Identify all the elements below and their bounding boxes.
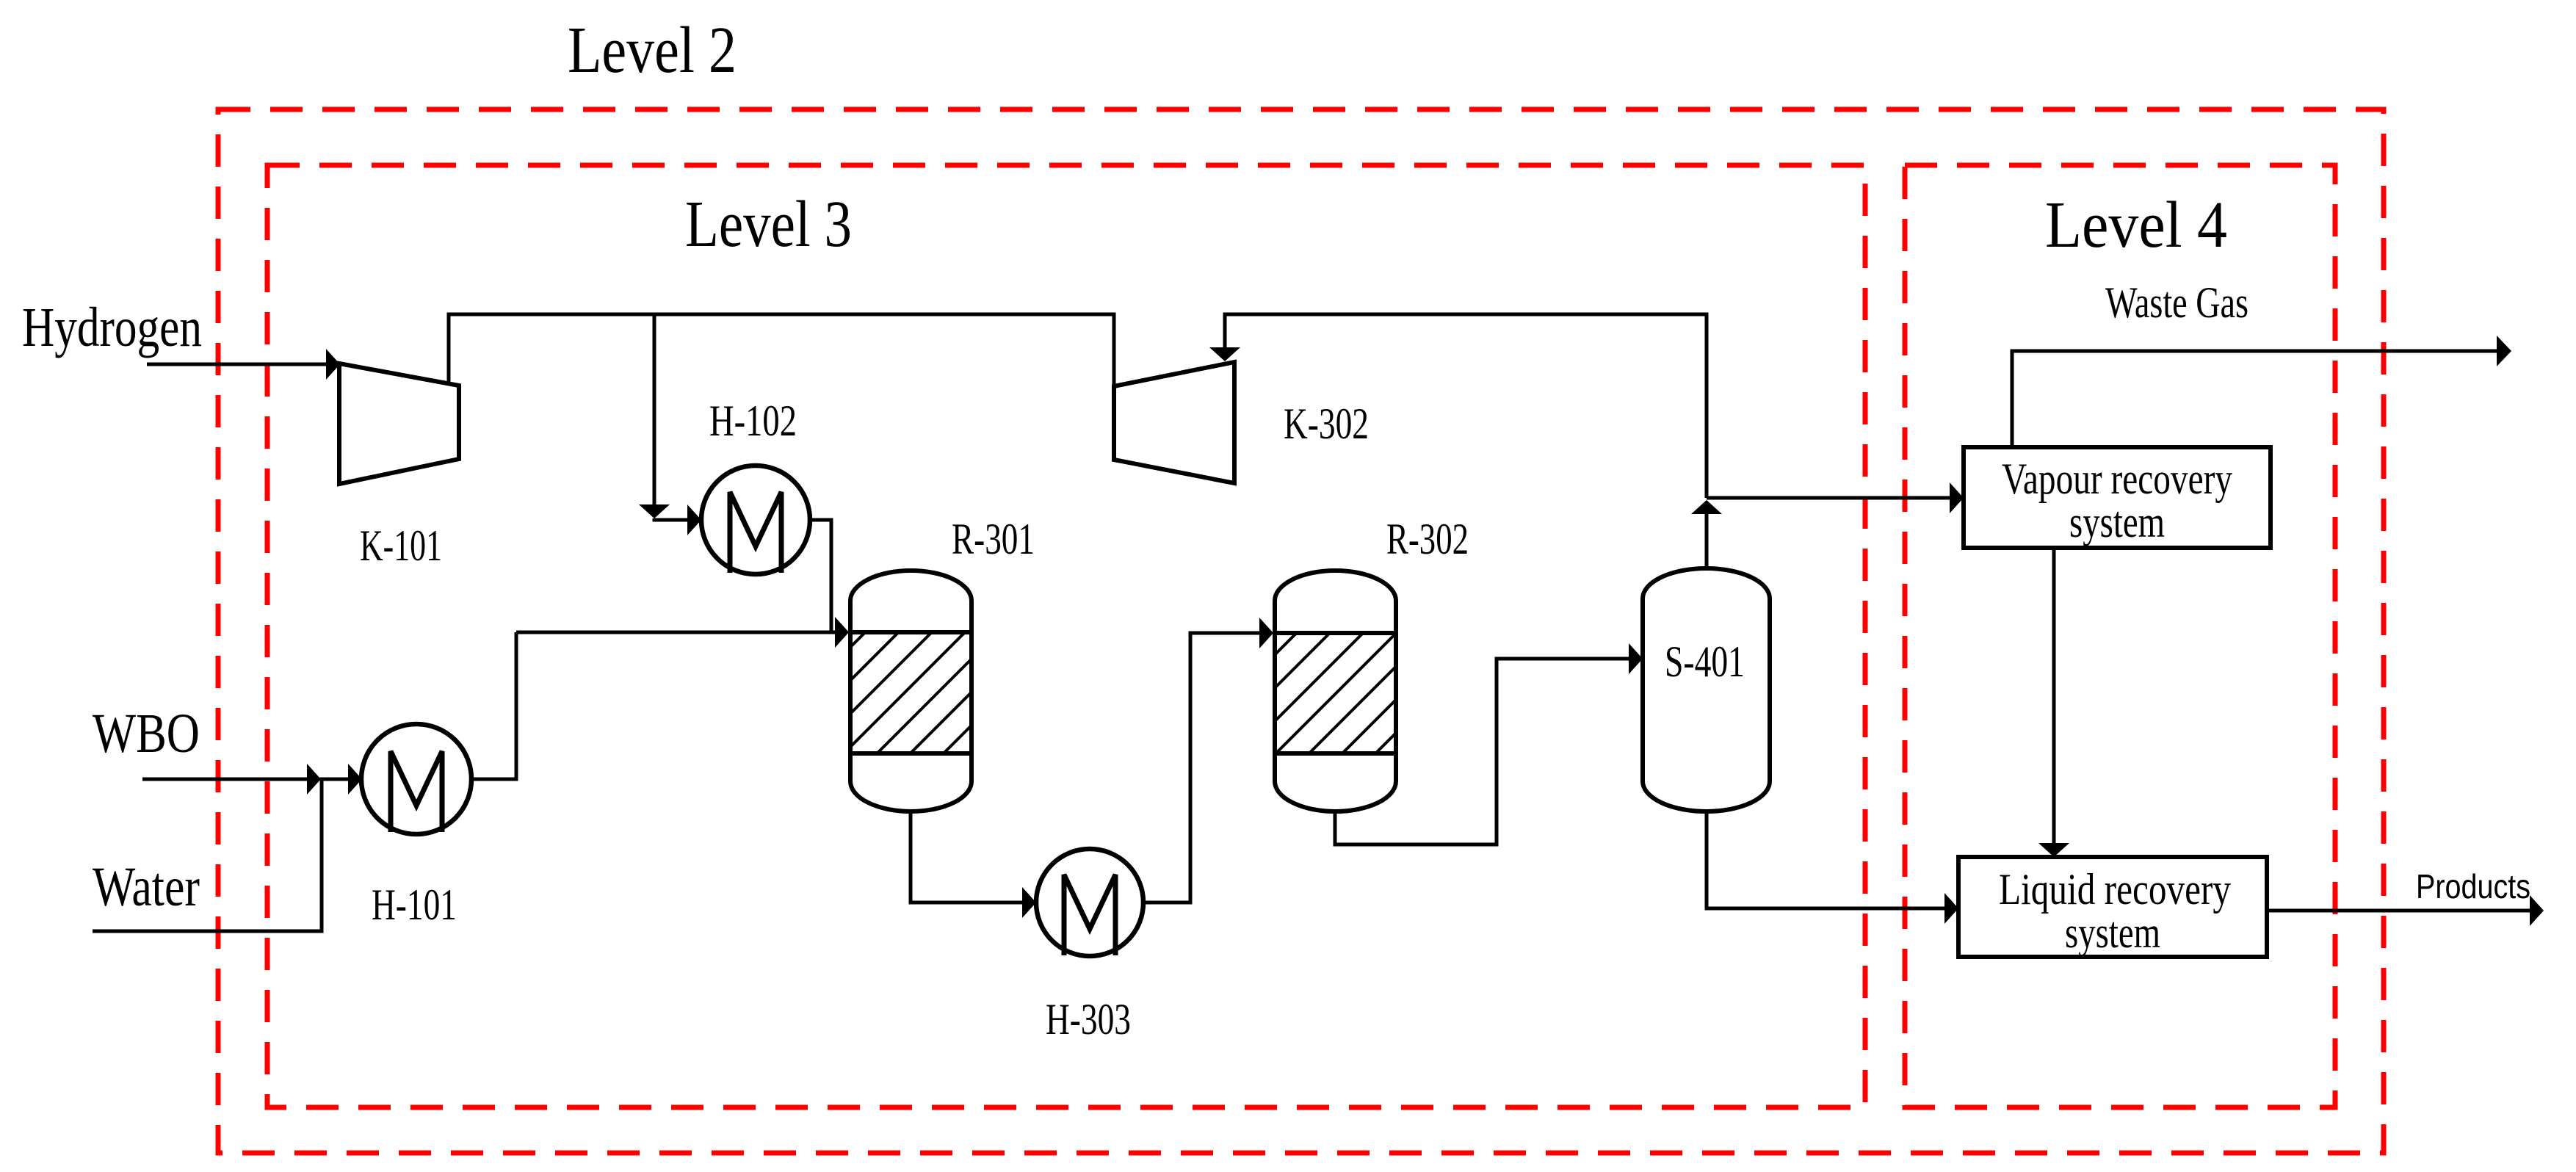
wire R-302 bottom to S-401 [1335, 659, 1629, 844]
wire products out [2267, 909, 2530, 913]
boundary Level 3 [267, 165, 1865, 1107]
wire H-102 outlet down to reactor feed [810, 520, 831, 632]
wire WBO feed [142, 778, 307, 781]
boundary Level 2 [218, 109, 2384, 1153]
wire overhead to vapour recovery [1707, 496, 1950, 500]
catalyst bed R-302 [1275, 633, 1396, 753]
wire tee drop to H-102 [653, 314, 656, 505]
svg-text:Liquid recovery: Liquid recovery [1999, 865, 2231, 914]
arrow up into overhead junction [1691, 500, 1722, 514]
svg-text:Level 4: Level 4 [2045, 189, 2227, 261]
heater H-101 [361, 724, 471, 834]
wire H-303 outlet up to R-302 feed [1143, 633, 1259, 902]
wire vapour recovery to liquid recovery [2052, 548, 2056, 843]
svg-text:system: system [2065, 908, 2160, 957]
wire S-401 bottoms to liquid recovery [1707, 811, 1944, 908]
arrow into liquid recovery top [2038, 843, 2069, 857]
svg-text:Water: Water [93, 856, 200, 918]
compressor K-101 [339, 363, 459, 484]
svg-text:R-301: R-301 [952, 515, 1035, 563]
arrow waste gas out [2497, 336, 2511, 366]
arrow into R-301 [835, 617, 849, 648]
catalyst bed R-301 [850, 632, 972, 753]
svg-text:H-303: H-303 [1046, 995, 1131, 1043]
wire H-101 outlet riser [471, 632, 516, 779]
block Liquid recovery system [1958, 857, 2267, 957]
svg-text:Hydrogen: Hydrogen [22, 297, 202, 358]
wire R-301 bottom to H-303 [911, 811, 1022, 902]
wire reactor R-301 feed [516, 631, 835, 634]
wire K-101 outlet to top header [449, 314, 1114, 386]
arrow into liquid recovery left [1944, 893, 1958, 924]
compressor K-302 [1114, 362, 1234, 483]
boundary Level 4 [1905, 165, 2335, 1107]
reactor R-302 [1275, 571, 1396, 811]
arrow WBO into junction [307, 764, 321, 795]
wire waste gas [2012, 351, 2497, 447]
separator S-401 [1643, 568, 1770, 811]
wire Hydrogen feed [147, 363, 326, 366]
svg-text:Products: Products [2416, 867, 2530, 905]
wire S-401 overhead riser [1705, 514, 1709, 568]
arrow products [2530, 895, 2544, 926]
svg-text:K-302: K-302 [1284, 399, 1369, 448]
svg-text:Vapour recovery: Vapour recovery [2002, 455, 2232, 503]
arrow into H-303 [1022, 887, 1036, 918]
svg-text:Waste Gas: Waste Gas [2105, 278, 2248, 327]
svg-text:Level 3: Level 3 [685, 188, 852, 261]
arrow into H-102 [687, 504, 701, 535]
svg-text:H-102: H-102 [709, 397, 797, 445]
svg-text:R-302: R-302 [1386, 515, 1469, 563]
arrow into S-401 [1629, 643, 1643, 674]
arrow into K-101 [326, 349, 340, 380]
arrow into H-101 [348, 764, 362, 795]
reactor R-301 [850, 571, 972, 811]
arrow down at H-102 inlet corner [639, 504, 670, 518]
arrow into vapour recovery box [1950, 482, 1964, 513]
svg-text:WBO: WBO [93, 703, 200, 764]
block Vapour recovery system [1964, 447, 2271, 548]
svg-text:Level 2: Level 2 [568, 14, 737, 87]
svg-text:system: system [2069, 498, 2165, 546]
heater H-303 [1036, 849, 1143, 956]
svg-text:S-401: S-401 [1665, 637, 1745, 686]
arrow into K-302 [1209, 347, 1240, 361]
heater H-102 [701, 466, 810, 574]
arrow into R-302 [1259, 618, 1273, 648]
wire corner into H-102 [654, 518, 687, 520]
wire recycle to K-302 [1225, 314, 1707, 498]
svg-text:H-101: H-101 [372, 880, 457, 929]
wire Water feed [93, 779, 348, 931]
svg-text:K-101: K-101 [360, 521, 442, 570]
